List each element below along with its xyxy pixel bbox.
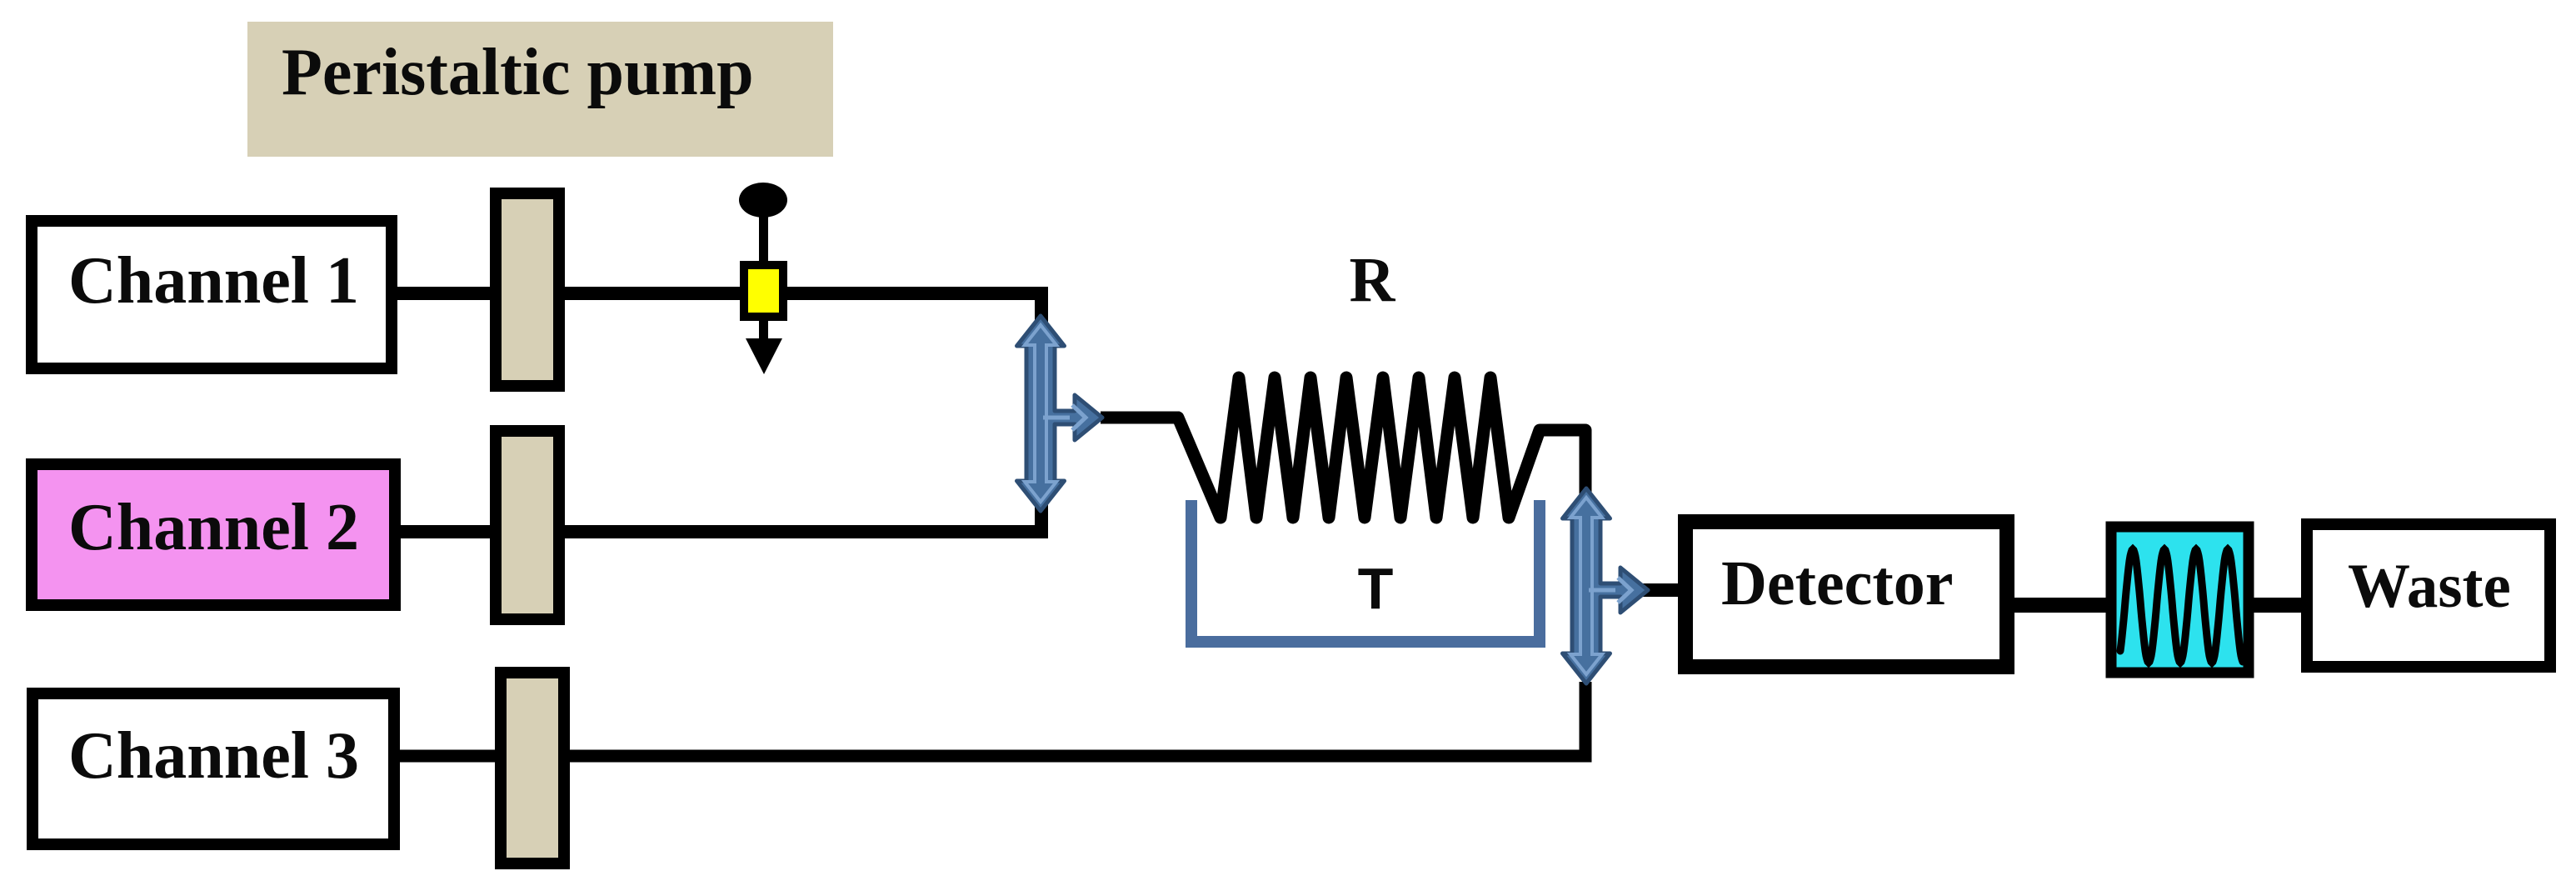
wire junction1 output [1101, 412, 1180, 424]
svg-text:Peristaltic pump: Peristaltic pump [282, 36, 754, 109]
svg-text:T: T [1358, 556, 1394, 621]
injection valve: knob ellipse [739, 183, 787, 218]
pump roller 3 [501, 673, 564, 863]
wire channel 2 [401, 525, 1048, 538]
wire channel 3 to junction 2 [400, 682, 1585, 756]
channel 1 box [32, 221, 392, 368]
injection valve: waste arrowhead [746, 338, 782, 374]
pump roller 1 [496, 193, 559, 386]
wire junction2 to detector [1643, 583, 1680, 597]
peristaltic pump label box [247, 22, 833, 157]
injection valve: upper stem [759, 213, 768, 264]
svg-text:Channel 2: Channel 2 [68, 491, 359, 564]
flow junction 1 (blue confluence arrow) [1017, 316, 1103, 511]
mixer sine wave [2120, 549, 2243, 663]
flow junction 2 (blue, to detector) [1563, 488, 1649, 683]
wire mixer to waste [2252, 598, 2303, 613]
reactor coil R [1178, 378, 1585, 518]
svg-text:R: R [1350, 245, 1396, 315]
mixer box (cyan) [2111, 527, 2249, 673]
wire channel 1 to junction [397, 293, 1041, 532]
svg-text:Channel 3: Channel 3 [68, 719, 359, 793]
waste box [2307, 524, 2550, 667]
pump roller 2 [496, 431, 559, 619]
channel 3 box [32, 693, 394, 844]
thermostat bath bracket T [1191, 500, 1540, 642]
injection valve: yellow body [744, 265, 783, 317]
detector box [1685, 522, 2007, 667]
svg-text:Channel 1: Channel 1 [68, 244, 359, 318]
svg-text:Detector: Detector [1721, 548, 1953, 618]
channel 2 box [32, 464, 395, 605]
svg-text:Waste: Waste [2348, 552, 2511, 621]
injection valve: lower stem [759, 321, 768, 341]
wire detector to mixer [2013, 598, 2108, 613]
